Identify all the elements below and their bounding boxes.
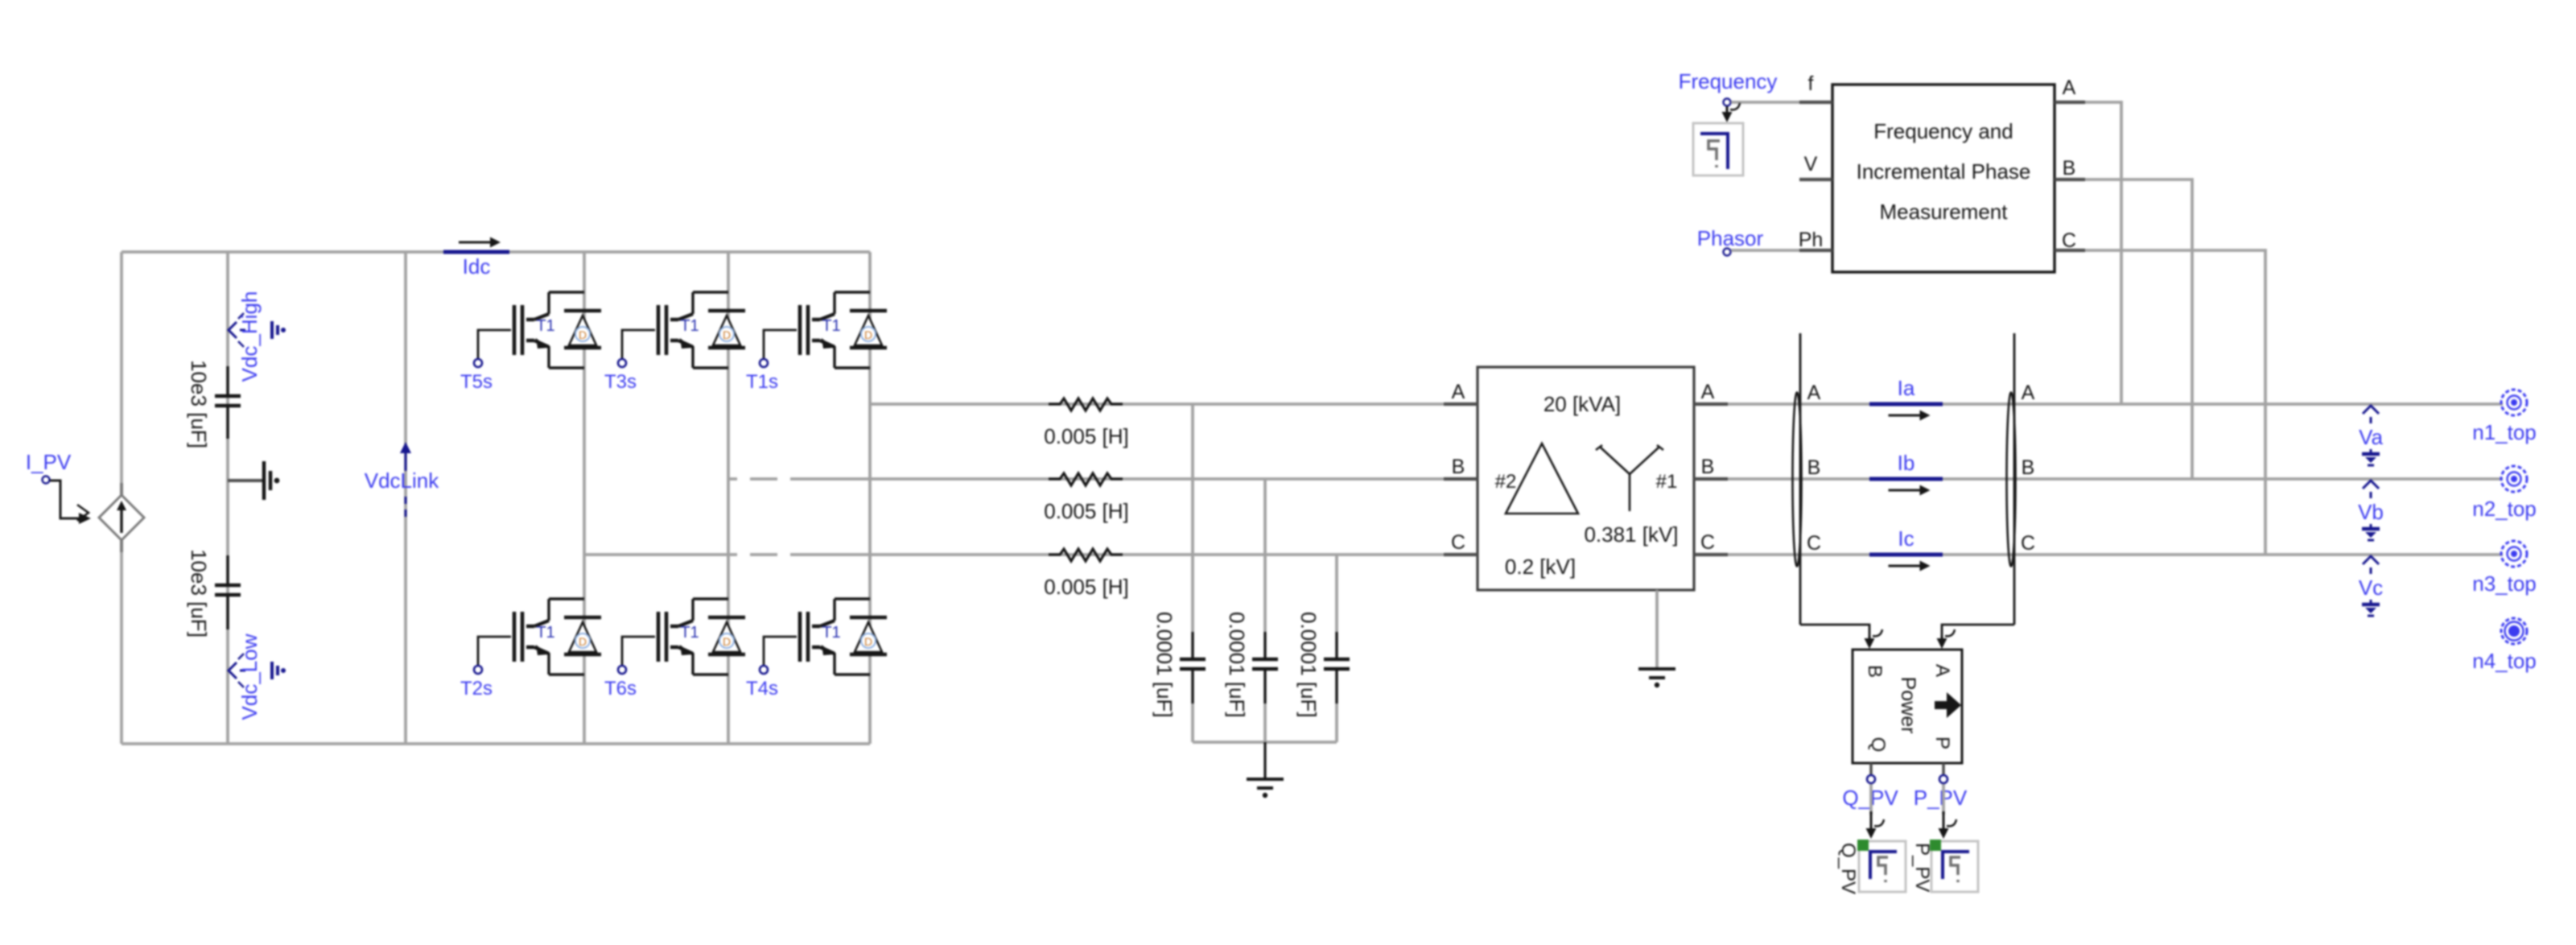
inductor 0.005 [H] phase A	[1049, 398, 1123, 411]
svg-text:V: V	[1804, 153, 1818, 175]
node Frequency + wire to f	[1679, 69, 1799, 106]
wire: inverter leg 3	[868, 252, 872, 744]
svg-text:B: B	[1864, 665, 1886, 678]
svg-text:B: B	[1701, 456, 1715, 478]
svg-text:C: C	[1451, 531, 1465, 554]
svg-text:0.0001 [uF]: 0.0001 [uF]	[1296, 612, 1321, 718]
transistor T1 with diode D (gate T2s)	[474, 599, 601, 675]
svg-text:T1: T1	[536, 317, 554, 335]
svg-text:T1: T1	[536, 624, 554, 642]
svg-text:Vb: Vb	[2358, 500, 2384, 524]
svg-text:Vc: Vc	[2359, 576, 2383, 600]
svg-text:D: D	[864, 328, 872, 341]
capacitor C2 10e3 [uF] (lower DC link cap)	[215, 555, 241, 629]
wire: VdcLink branch	[404, 252, 407, 744]
3-phase breakout (right)	[2013, 333, 2016, 625]
3-phase breakout (left)	[1799, 333, 1802, 625]
node I_PV input + label	[26, 450, 91, 524]
svg-text:A: A	[2063, 76, 2076, 99]
Power outputs Q and P	[1867, 763, 1947, 783]
measurement block: Frequency and Incremental Phase Measurement	[1832, 85, 2055, 272]
block pins f V Ph A B C	[1799, 72, 2085, 252]
svg-text:Vdc_High: Vdc_High	[237, 291, 262, 382]
svg-text:0.005 [H]: 0.005 [H]	[1044, 424, 1129, 448]
transistor T1 with diode D (gate T6s)	[618, 599, 745, 675]
svg-text:Q_PV: Q_PV	[1837, 843, 1859, 894]
svg-text:T1: T1	[822, 317, 840, 335]
transistor T1 with diode D (gate T3s)	[618, 292, 745, 368]
svg-text:A: A	[1931, 664, 1953, 677]
svg-text:D: D	[864, 635, 872, 648]
svg-text:C: C	[2062, 229, 2076, 252]
svg-text:Frequency: Frequency	[1679, 69, 1778, 93]
wire: breakout right to Power input A	[1937, 625, 2015, 649]
svg-text:#1: #1	[1656, 471, 1678, 493]
wire: filter cap common bus	[1193, 741, 1337, 744]
svg-text:0.381 [kV]: 0.381 [kV]	[1584, 522, 1678, 547]
svg-text:Phasor: Phasor	[1697, 226, 1764, 250]
output channel Frequency (plot box)	[1693, 123, 1743, 175]
node Phasor + wire to Ph	[1697, 226, 1799, 256]
output channel P_PV (plot box)	[1931, 841, 1978, 892]
wire: inverter leg 1	[583, 252, 586, 744]
svg-text:n3_top: n3_top	[2472, 572, 2537, 596]
svg-text:C: C	[1700, 531, 1715, 554]
voltmeter Vb	[2358, 481, 2384, 540]
voltmeter Vdc_High	[229, 291, 286, 382]
svg-text:Idc: Idc	[463, 254, 491, 279]
transformer T 20 kVA delta-wye	[1478, 367, 1694, 590]
wire: block B output to phase B	[2085, 180, 2192, 479]
transistor T1 with diode D (gate T1s)	[760, 292, 887, 368]
capacitor 0.0001 [uF] phase B	[1252, 632, 1278, 704]
svg-text:C: C	[2021, 532, 2035, 555]
wire: DC top bus	[122, 250, 870, 254]
svg-text:T2s: T2s	[460, 678, 493, 699]
ammeter Ib	[1869, 477, 1943, 481]
wire: breakout left to Power input B	[1800, 625, 1882, 649]
svg-text:0.2 [kV]: 0.2 [kV]	[1505, 555, 1576, 579]
wire: block C output to phase C	[2085, 250, 2265, 555]
svg-text:Va: Va	[2359, 425, 2383, 449]
wire: inverter leg 2	[727, 252, 730, 744]
svg-text:D: D	[579, 635, 587, 648]
svg-text:0.005 [H]: 0.005 [H]	[1044, 575, 1129, 599]
wire: phase A line (transformer to n1_top)	[1728, 402, 2503, 406]
svg-text:10e3 [uF]: 10e3 [uF]	[187, 360, 211, 448]
svg-text:P_PV: P_PV	[1911, 843, 1933, 892]
svg-text:n2_top: n2_top	[2472, 497, 2537, 521]
wire: filter cap branch phase C	[1335, 555, 1338, 632]
svg-text:T1: T1	[822, 624, 840, 642]
svg-text:Frequency and: Frequency and	[1873, 119, 2013, 143]
svg-text:Vdc_Low: Vdc_Low	[237, 633, 262, 720]
svg-text:T3s: T3s	[604, 371, 637, 393]
svg-text:P: P	[1931, 737, 1953, 749]
svg-text:B: B	[2063, 157, 2076, 180]
power meter block (Power)	[1853, 650, 1962, 763]
inductor 0.005 [H] phase B	[1049, 473, 1123, 485]
ground of transformer star point	[1638, 590, 1675, 687]
svg-text:I_PV: I_PV	[26, 450, 72, 474]
svg-text:A: A	[1701, 381, 1715, 403]
ammeter Ic	[1869, 553, 1943, 557]
svg-text:T1: T1	[680, 624, 699, 642]
svg-text:A: A	[2022, 382, 2035, 404]
svg-text:10e3 [uF]: 10e3 [uF]	[187, 549, 211, 638]
svg-text:Power: Power	[1897, 677, 1919, 734]
wire: phase C line (inverter to transformer)	[584, 553, 1478, 556]
svg-text:P_PV: P_PV	[1914, 786, 1968, 810]
svg-text:T4s: T4s	[746, 678, 778, 699]
inductor 0.005 [H] phase C	[1049, 549, 1123, 561]
svg-text:T1: T1	[680, 317, 699, 335]
node terminal n1_top	[2472, 390, 2537, 444]
svg-text:D: D	[579, 328, 587, 341]
svg-text:0.005 [H]: 0.005 [H]	[1044, 499, 1129, 523]
wire: phase C line (transformer to n3_top)	[1728, 553, 2503, 556]
svg-text:A: A	[1452, 381, 1465, 403]
voltmeter VdcLink	[365, 442, 439, 519]
svg-text:Ic: Ic	[1898, 526, 1914, 551]
wire: phase B line (transformer to n2_top)	[1728, 477, 2503, 481]
svg-text:B: B	[2022, 456, 2035, 479]
svg-text:T1s: T1s	[746, 371, 778, 393]
svg-text:#2: #2	[1495, 471, 1517, 493]
current source I_PV (diamond)	[99, 483, 144, 552]
ammeter Ia	[1869, 402, 1943, 406]
svg-text:Ib: Ib	[1898, 451, 1915, 475]
wire: Frequency to output channel	[1726, 106, 1729, 116]
svg-text:Measurement: Measurement	[1880, 200, 2009, 224]
svg-text:n1_top: n1_top	[2472, 420, 2537, 444]
svg-text:0.0001 [uF]: 0.0001 [uF]	[1225, 612, 1249, 718]
wire: P_PV to output channel	[1939, 784, 1957, 839]
ground of filter bank	[1247, 742, 1284, 798]
svg-text:20 [kVA]: 20 [kVA]	[1544, 392, 1621, 416]
wire: capacitor branch	[226, 252, 229, 744]
svg-text:Ia: Ia	[1898, 376, 1915, 400]
capacitor 0.0001 [uF] phase C	[1324, 632, 1350, 704]
wire: block A output to phase A	[2085, 102, 2121, 404]
wire: filter cap branch phase A	[1191, 404, 1194, 632]
svg-text:VdcLink: VdcLink	[365, 468, 439, 493]
wire: Q_PV to output channel	[1866, 784, 1885, 839]
capacitor 0.0001 [uF] phase A	[1180, 632, 1206, 704]
transistor T1 with diode D (gate T5s)	[474, 292, 601, 368]
svg-text:T6s: T6s	[604, 678, 637, 699]
wire: filter cap branch phase B	[1263, 479, 1267, 632]
svg-text:T5s: T5s	[460, 371, 493, 393]
voltmeter Vc	[2359, 556, 2383, 616]
transformer pins	[1444, 381, 1728, 555]
wire gaps (overlap artifacts)	[737, 477, 790, 557]
svg-text:B: B	[1452, 456, 1465, 478]
svg-text:Q: Q	[1867, 737, 1889, 753]
svg-text:D: D	[723, 328, 731, 341]
svg-text:A: A	[1807, 382, 1821, 404]
wire: phase B line (inverter to transformer)	[728, 477, 1478, 481]
voltmeter Va	[2359, 406, 2383, 465]
svg-text:Ph: Ph	[1799, 229, 1824, 251]
voltmeter Vdc_Low	[229, 633, 286, 720]
ammeter Idc on DC bus	[443, 250, 509, 254]
capacitor C1 10e3 [uF] (upper DC link cap)	[215, 366, 241, 439]
wire: DC bottom bus	[122, 742, 870, 745]
wire: left rail	[120, 252, 123, 744]
svg-text:D: D	[723, 635, 731, 648]
wire: phase A line (inverter to transformer)	[870, 402, 1478, 406]
svg-text:B: B	[1807, 456, 1821, 479]
transistor T1 with diode D (gate T4s)	[760, 599, 887, 675]
svg-text:Incremental Phase: Incremental Phase	[1857, 159, 2031, 184]
node terminal n2_top	[2472, 466, 2537, 521]
svg-text:f: f	[1808, 72, 1814, 95]
svg-text:n4_top: n4_top	[2472, 649, 2537, 673]
ground at capacitor midpoint	[228, 461, 279, 500]
output channel Q_PV (plot box)	[1859, 841, 1906, 892]
node terminal n3_top	[2472, 541, 2537, 596]
svg-text:0.0001 [uF]: 0.0001 [uF]	[1152, 612, 1177, 718]
svg-text:C: C	[1807, 532, 1821, 555]
node terminal n4_top	[2472, 618, 2537, 673]
